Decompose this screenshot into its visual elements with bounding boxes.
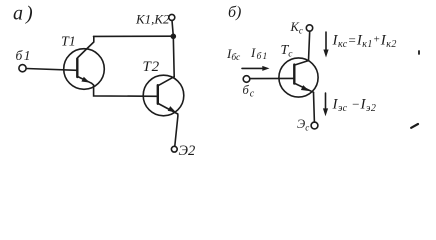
- transistor T2: [143, 75, 184, 116]
- terminal B1: [19, 65, 26, 72]
- stray mark (dash, bottom right): [411, 124, 418, 128]
- svg-text:бс: бс: [243, 83, 256, 99]
- terminal E2: [171, 146, 177, 152]
- terminal K1,K2: [169, 14, 175, 20]
- junction node K1K2: [171, 34, 177, 40]
- svg-text:Т1: Т1: [61, 35, 76, 50]
- svg-text:Iкс=Iк1+Iк2: Iкс=Iк1+Iк2: [332, 33, 397, 51]
- svg-text:Э2: Э2: [179, 143, 196, 159]
- transistor T1: [64, 36, 105, 89]
- svg-text:б): б): [228, 4, 241, 21]
- wire T1 emitter to T2 base: [92, 83, 158, 96]
- svg-text:Т2: Т2: [143, 59, 160, 75]
- svg-text:Кс: Кс: [290, 20, 303, 36]
- collector current arrow: [323, 32, 328, 58]
- svg-text:Тс: Тс: [281, 43, 294, 60]
- wire Tc collector to Kc: [309, 31, 310, 60]
- wire T2 emitter to E2 terminal: [175, 114, 178, 146]
- wire Bc to Tc base: [250, 77, 294, 79]
- emitter current arrow: [323, 93, 328, 116]
- wire Tc emitter to Ec: [313, 92, 316, 122]
- wire T1 collector to junction (top wire): [94, 35, 174, 37]
- terminal Bc: [243, 76, 250, 83]
- svg-text:Iэс −Iэ2: Iэс −Iэ2: [332, 97, 377, 115]
- wire T2 collector to junction: [172, 36, 175, 76]
- wire junction to K1K2 terminal: [172, 20, 173, 36]
- svg-text:Iбс: Iбс: [226, 46, 241, 63]
- svg-text:а): а): [13, 3, 36, 25]
- wire B1 to T1 base: [26, 69, 77, 71]
- stray mark (tick, right): [418, 51, 420, 54]
- terminal Ec: [311, 122, 318, 129]
- transistor Tc: [279, 58, 318, 97]
- svg-text:Iб1: Iб1: [250, 45, 268, 62]
- terminal Kc: [306, 25, 312, 31]
- svg-text:Эс: Эс: [297, 117, 309, 133]
- svg-text:К1,К2: К1,К2: [135, 12, 170, 27]
- svg-text:б1: б1: [16, 48, 33, 63]
- base current arrow: [242, 66, 270, 71]
